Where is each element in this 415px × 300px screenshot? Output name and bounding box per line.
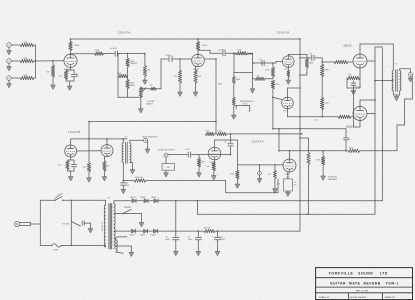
tube V4A 12AX7B triode 1 bbox=[65, 145, 77, 157]
resistor 1M V1B grid bbox=[179, 59, 181, 70]
wire input join vertical bbox=[35, 45, 37, 78]
ground V1B cathode bbox=[193, 92, 198, 96]
title block divider1 bbox=[316, 277, 413, 279]
resistor 1M divider link bbox=[252, 73, 254, 79]
wire phase to V5 rail bbox=[278, 129, 280, 151]
svg-text:BASS: BASS bbox=[130, 84, 136, 87]
node mix bbox=[233, 52, 235, 54]
wire D5 D6 bbox=[148, 230, 154, 232]
box V5 cathode bbox=[284, 179, 293, 191]
resistor 470K divider upper bbox=[272, 63, 274, 67]
capacitor filter C1 40/450V bbox=[175, 201, 177, 237]
svg-text:#3,8: #3,8 bbox=[284, 69, 288, 71]
wire HT top bbox=[113, 201, 115, 204]
potentiometer 500K bass bbox=[127, 71, 129, 80]
wire 6BQ5a plate bbox=[359, 44, 361, 54]
wire coupling a bbox=[300, 57, 311, 59]
resistor 500K reverb depth bbox=[233, 73, 235, 77]
wire V2A out bbox=[231, 139, 238, 141]
svg-text:12AX7B: 12AX7B bbox=[68, 130, 80, 134]
svg-text:820: 820 bbox=[106, 166, 109, 168]
wire divider to V3B grid bbox=[273, 97, 282, 99]
tube V3B triode bbox=[282, 97, 294, 109]
wire V4B grid stub bbox=[106, 139, 108, 145]
svg-text:.0047: .0047 bbox=[185, 149, 190, 151]
switch power S1 bbox=[40, 199, 55, 201]
tube V7 6BQ5 lower bbox=[353, 107, 367, 121]
wire cap to V2A grid bbox=[191, 154, 208, 156]
resistor driver mid bbox=[87, 163, 90, 173]
svg-text:130: 130 bbox=[348, 75, 351, 77]
transformer T2 secondary coil bbox=[400, 71, 401, 91]
transformer T1 secondary coil bbox=[130, 143, 131, 163]
wire V1A plate out bbox=[71, 53, 95, 55]
title block divider2 bbox=[316, 286, 413, 288]
svg-text:68K: 68K bbox=[24, 58, 28, 60]
ground T1 secondary bbox=[130, 170, 135, 174]
wire B+ vertical rail 2 bbox=[382, 48, 384, 201]
tube V1A 12AX7 triode 1 bbox=[64, 54, 77, 67]
node B+ rail to V1 plate bbox=[70, 38, 72, 40]
svg-text:DRAWN BY: DRAWN BY bbox=[385, 296, 396, 299]
wire cap to 220K bbox=[226, 52, 236, 54]
transformer T1 core bbox=[125, 142, 127, 163]
resistor grid stopper a bbox=[334, 60, 348, 63]
title block outer box bbox=[316, 268, 413, 300]
wire reverb mix run bbox=[146, 180, 226, 182]
svg-text:500K: 500K bbox=[236, 79, 241, 81]
switch ground polarity bbox=[71, 222, 80, 227]
diode D4 1N4003 bbox=[132, 229, 136, 233]
title block cell divider a bbox=[348, 293, 350, 300]
resistor 100K V1B plate bbox=[197, 39, 199, 42]
wire input to V1A grid bbox=[34, 60, 64, 62]
svg-text:GROUND: GROUND bbox=[63, 223, 71, 225]
svg-text:470K: 470K bbox=[275, 84, 280, 86]
resistor 250K treble feed bbox=[95, 52, 104, 55]
wire volume to V1B grid bbox=[156, 88, 161, 90]
wire V1A cathode join bbox=[66, 80, 74, 82]
ground V4B cathode bbox=[102, 177, 107, 181]
transformer T3 heater coil bbox=[116, 240, 117, 252]
svg-text:1N4003: 1N4003 bbox=[151, 235, 156, 237]
ground filter C1 bbox=[173, 251, 178, 255]
svg-text:+ 100: + 100 bbox=[313, 120, 318, 122]
resistor cathode 6BQ5 bbox=[347, 76, 360, 79]
wire D1 D2 bbox=[136, 200, 144, 202]
tube V4B 12AX7B triode 2 bbox=[101, 145, 113, 157]
transformer T2 primary coil bbox=[392, 71, 393, 91]
ground V3A cathode bbox=[286, 80, 291, 84]
svg-text:1M: 1M bbox=[147, 69, 150, 71]
wire mains to switch bbox=[31, 223, 41, 225]
svg-text:1N4003: 1N4003 bbox=[151, 197, 156, 199]
svg-text:FEEDBACK: FEEDBACK bbox=[328, 178, 338, 181]
wire V3B plate bbox=[287, 88, 289, 97]
title block divider3 bbox=[316, 292, 413, 294]
svg-text:#4,9: #4,9 bbox=[283, 110, 287, 112]
tube V1B 12AX7 triode 2 bbox=[192, 54, 205, 67]
wire 6BQ5a grid tap bbox=[322, 61, 334, 63]
wire jack1 to resistor bbox=[11, 44, 20, 46]
svg-text:100K: 100K bbox=[309, 63, 314, 65]
ground V1B grid bbox=[178, 92, 183, 96]
resistor 250K tone mid bbox=[118, 74, 128, 77]
wire V1B plate out bbox=[198, 49, 210, 51]
ground standby bbox=[141, 214, 143, 223]
wire T1 secondary top bbox=[129, 140, 131, 143]
diode D2 1N4003 bbox=[144, 199, 148, 203]
jack delay line input bbox=[144, 138, 148, 142]
capacitor 25/25V V1A cathode bbox=[73, 70, 75, 74]
svg-text:1N4003: 1N4003 bbox=[130, 235, 135, 237]
svg-text:2M2: 2M2 bbox=[218, 84, 222, 86]
capacitor .02 600V reverb send bbox=[222, 51, 224, 56]
ground footswitch aux bbox=[259, 175, 261, 178]
svg-text:25 25V: 25 25V bbox=[356, 86, 362, 88]
capacitor V4A cathode bbox=[73, 160, 75, 164]
plug AC mains bbox=[14, 221, 19, 226]
svg-text:2K2: 2K2 bbox=[58, 165, 61, 167]
potentiometer 500K treble bbox=[127, 54, 129, 58]
svg-text:1 AMP: 1 AMP bbox=[53, 249, 59, 252]
ground V4A cathode bbox=[68, 170, 75, 172]
wire cap to V1B bbox=[172, 58, 192, 60]
wire HT rail mid bbox=[158, 230, 205, 232]
resistor 100K V1A plate bbox=[70, 39, 72, 42]
ground V2A cathode bbox=[211, 176, 216, 180]
capacitor .02 mix out bbox=[261, 60, 263, 65]
svg-text:10M: 10M bbox=[201, 162, 205, 164]
tube V3A triode bbox=[283, 56, 295, 68]
resistor 30K 1W bbox=[204, 229, 215, 232]
wire V3A plate to rail bbox=[287, 55, 289, 56]
svg-text:250K: 250K bbox=[95, 50, 100, 52]
potentiometer volume ch1 bbox=[139, 87, 142, 97]
capacitor .02 600V ch1 bbox=[114, 51, 116, 56]
resistor 1M tone bbox=[144, 54, 146, 66]
svg-text:68K: 68K bbox=[24, 75, 28, 77]
capacitor .02 coupling a bbox=[311, 55, 313, 60]
switch standby bbox=[114, 213, 123, 215]
ground driver mid bbox=[87, 178, 92, 182]
svg-text:STANDBY: STANDBY bbox=[124, 206, 133, 209]
svg-text:7.5: 7.5 bbox=[57, 194, 59, 196]
wire delay out jack bbox=[168, 154, 187, 156]
wire HT mid bbox=[114, 230, 131, 232]
capacitor filter C2 bbox=[197, 231, 199, 237]
tube V2A recovery triode bbox=[208, 147, 221, 160]
svg-text:TREBLE: TREBLE bbox=[130, 63, 138, 65]
jack footswitch aux bbox=[259, 165, 261, 172]
resistor 1K5 V1A cathode bbox=[70, 67, 72, 70]
wire D4 D5 bbox=[136, 230, 144, 232]
wire 6BQ5b plate bbox=[359, 100, 361, 107]
resistor 100K V3A plate load bbox=[305, 58, 308, 68]
wire driver grid rail bbox=[71, 138, 128, 140]
node volume top bbox=[140, 97, 142, 99]
svg-text:12AX7A: 12AX7A bbox=[252, 140, 264, 144]
capacitor .02 recovery bbox=[228, 143, 233, 145]
wire B+ top rail bbox=[71, 38, 301, 40]
wire to coupling cap bbox=[104, 53, 116, 55]
svg-text:470: 470 bbox=[206, 130, 209, 132]
ground divider bbox=[252, 79, 254, 89]
wire T2 B+ tap bbox=[375, 80, 393, 82]
svg-text:.02 600V: .02 600V bbox=[218, 49, 226, 51]
svg-text:470K: 470K bbox=[265, 70, 270, 72]
svg-text:1K5: 1K5 bbox=[207, 166, 210, 168]
wire corner coupling b bbox=[345, 129, 347, 137]
svg-text:100K: 100K bbox=[349, 147, 354, 149]
wire T1 primary bottom bbox=[122, 163, 124, 183]
mark pencil check bbox=[55, 194, 62, 199]
transformer T3 primary coil bbox=[104, 205, 105, 247]
svg-text:6BQ5: 6BQ5 bbox=[344, 44, 352, 48]
wire mix out bbox=[253, 62, 276, 64]
ground 470K tail bbox=[321, 176, 326, 180]
svg-text:DELAY LINE OUTPUT: DELAY LINE OUTPUT bbox=[158, 149, 177, 152]
svg-text:250K: 250K bbox=[117, 73, 122, 75]
wire cap to divider a bbox=[315, 57, 322, 59]
svg-text:.02 600V: .02 600V bbox=[110, 48, 118, 50]
ground T2 bbox=[394, 97, 399, 101]
node rail junctions bbox=[299, 38, 301, 40]
svg-text:DRAWN BY: DRAWN BY bbox=[319, 296, 330, 299]
input jack J1 bbox=[7, 43, 12, 48]
node tone stack top bbox=[117, 53, 119, 55]
diode D5 1N4003 bbox=[144, 229, 148, 233]
node V1B grid wire bbox=[179, 58, 181, 60]
wire V5 plate rail bbox=[279, 150, 345, 152]
svg-text:470: 470 bbox=[150, 85, 153, 87]
transformer T1 primary coil bbox=[122, 143, 123, 163]
wire 6BQ5b cathode bbox=[359, 121, 361, 128]
svg-text:DESIGN CHECKED: DESIGN CHECKED bbox=[350, 297, 367, 299]
wire T1 primary top bbox=[122, 139, 124, 143]
svg-text:+ .02: + .02 bbox=[308, 54, 312, 56]
resistor screen dropper bbox=[300, 137, 309, 139]
ground V1A cathode bbox=[67, 86, 72, 90]
svg-text:100K: 100K bbox=[202, 45, 208, 47]
wire 6BQ5b grid feed bbox=[288, 116, 339, 118]
ground 1M tone bbox=[143, 80, 148, 84]
wire V5 grid line bbox=[237, 164, 283, 166]
svg-text:FEB 14 1969: FEB 14 1969 bbox=[356, 290, 369, 292]
wire tone stack left vertical bbox=[117, 54, 119, 98]
ground jack J3 bbox=[8, 80, 10, 83]
resistor V3A cathode bbox=[287, 67, 289, 70]
svg-text:1N4003: 1N4003 bbox=[140, 235, 145, 237]
jack delay line output bbox=[164, 153, 168, 157]
svg-text:GUITAR MATE REVERB YGM-1: GUITAR MATE REVERB YGM-1 bbox=[330, 281, 399, 285]
wire speaker feedback run bbox=[411, 75, 413, 100]
resistor 470K volume out bbox=[140, 87, 142, 89]
ground 10M recovery bbox=[197, 173, 202, 177]
wire primary inner bbox=[70, 200, 72, 221]
wire phase rail bbox=[273, 128, 346, 130]
wire divider down bbox=[272, 97, 274, 129]
wire T2 bottom bar bbox=[392, 91, 394, 95]
ground V5 cathode bbox=[286, 192, 291, 196]
wire heater rail bbox=[196, 201, 198, 214]
box reverb level bbox=[162, 164, 175, 171]
wire D2 D3 bbox=[148, 200, 154, 202]
svg-text:DELAY LINE INPUT: DELAY LINE INPUT bbox=[142, 135, 159, 138]
wire heater top bbox=[116, 237, 118, 240]
wire V4A grid stub bbox=[70, 139, 72, 145]
wire HT rail upper bbox=[158, 200, 383, 202]
wire driver plates join bbox=[77, 150, 101, 152]
wire reverb driver rail bbox=[89, 121, 216, 123]
speaker jack bbox=[408, 73, 412, 77]
node rail2 top bbox=[375, 46, 383, 48]
wire cap to tone stack bbox=[117, 53, 145, 55]
wire mix to V3A grid bbox=[275, 62, 277, 63]
svg-text:.02: .02 bbox=[224, 141, 227, 143]
ground speaker jack bbox=[409, 77, 411, 79]
resistor 500K level bbox=[236, 165, 238, 170]
wire reverb box ground stub bbox=[233, 106, 235, 115]
svg-text:1M: 1M bbox=[257, 75, 260, 77]
wire jack3 to resistor bbox=[11, 77, 20, 79]
resistor 1M V5 grid bbox=[274, 165, 276, 171]
node grid leak bbox=[52, 60, 54, 62]
resistor 68K input 2 bbox=[20, 59, 34, 62]
svg-text:12AX7A: 12AX7A bbox=[277, 31, 291, 35]
wire primary bottom bbox=[105, 245, 107, 247]
resistor 470K reverb mix bbox=[123, 180, 134, 182]
svg-text:1M: 1M bbox=[47, 72, 50, 74]
ground filter C3 bbox=[215, 251, 220, 255]
svg-text:30K 1W: 30K 1W bbox=[204, 228, 211, 230]
svg-text:1N4003: 1N4003 bbox=[141, 197, 146, 199]
resistor V4B cathode bbox=[103, 156, 105, 161]
resistor 10M recovery grid bbox=[198, 155, 200, 158]
wire T2 secondary to jack bbox=[399, 69, 401, 71]
input jack J2 bbox=[7, 59, 12, 64]
ground filter C2 bbox=[196, 251, 201, 255]
input jack J3 bbox=[7, 76, 12, 81]
resistor grid stopper b bbox=[338, 115, 351, 118]
wire primary top bbox=[105, 200, 107, 205]
wire V2A plate bbox=[214, 140, 216, 147]
transformer T3 secondary coil bbox=[114, 204, 115, 249]
wire cap to grid node bbox=[230, 147, 232, 155]
tube V5 mixer triode bbox=[283, 159, 296, 172]
capacitor filter C3 bbox=[217, 231, 219, 237]
fuse 1 AMP bbox=[40, 244, 52, 246]
resistor 470K tail bbox=[322, 151, 324, 156]
resistor 1M grid leak bbox=[52, 61, 54, 65]
ground delay input jack bbox=[147, 140, 149, 149]
capacitor .0047 recovery bbox=[187, 152, 189, 157]
svg-text:470K: 470K bbox=[316, 160, 321, 162]
svg-text:MATE 1: MATE 1 bbox=[147, 103, 153, 106]
ground heater bbox=[129, 252, 134, 256]
diode D6 1N4003 bbox=[154, 229, 158, 233]
capacitor .02 600 ch1b bbox=[168, 56, 170, 61]
tube V6 6BQ5 upper bbox=[353, 54, 367, 68]
resistor 220K divider a1 bbox=[321, 58, 323, 64]
ground reverb box bbox=[231, 115, 236, 119]
svg-text:.02 600: .02 600 bbox=[165, 55, 171, 57]
wire V5 plate bbox=[289, 151, 291, 159]
svg-text:+.02: +.02 bbox=[258, 59, 261, 61]
svg-text:117 VAC 60: 117 VAC 60 bbox=[101, 222, 104, 231]
resistor 220K mix bbox=[236, 52, 248, 55]
ground T1 bottom bbox=[121, 189, 126, 193]
svg-text:YORKVILLE SOUND LTD: YORKVILLE SOUND LTD bbox=[328, 272, 387, 276]
resistor feedback 100K bbox=[348, 149, 360, 152]
wire V3B cathode bbox=[287, 109, 289, 117]
resistor reverb depth lower bbox=[232, 97, 235, 106]
resistor V2A cathode bbox=[214, 160, 216, 162]
box mix network bbox=[234, 54, 253, 73]
resistor 270K V2A plate bbox=[206, 132, 215, 135]
capacitor 25 25V T1 bbox=[121, 182, 126, 184]
wire heater bottom bbox=[116, 245, 132, 247]
box reverb tank bbox=[236, 105, 250, 112]
svg-text:220K: 220K bbox=[325, 70, 330, 72]
node input junction bbox=[35, 60, 37, 62]
ground jack J2 bbox=[8, 63, 10, 66]
svg-text:1M: 1M bbox=[174, 76, 177, 78]
wire 6BQ5a cathode bbox=[359, 68, 361, 74]
title block cell divider b bbox=[382, 293, 384, 300]
diode D1 1N4003 bbox=[132, 199, 136, 203]
transformer T3 core bbox=[108, 204, 110, 250]
svg-text:68K: 68K bbox=[24, 42, 28, 44]
svg-text:470K 1M: 470K 1M bbox=[135, 177, 143, 179]
ground 1M grid leak bbox=[51, 85, 56, 89]
wire B+ vertical rail 1 bbox=[374, 47, 376, 214]
ground 500K level bbox=[235, 184, 240, 188]
wire B+ right rail bbox=[299, 39, 301, 231]
wire driver feed bbox=[88, 122, 90, 163]
resistor V4A cathode bbox=[70, 157, 72, 160]
wire jack2 to resistor bbox=[11, 60, 20, 62]
capacitor death cap bbox=[81, 221, 83, 225]
svg-text:270K: 270K bbox=[237, 50, 242, 52]
resistor 68K input 1 bbox=[20, 43, 34, 46]
wire ch1 signal down bbox=[215, 59, 217, 133]
ground reverb level bbox=[164, 173, 169, 177]
transformer T2 core bbox=[395, 70, 397, 92]
ground jack J1 bbox=[8, 47, 10, 50]
resistor 68K input 3 bbox=[20, 76, 34, 79]
wire T1 secondary bottom bbox=[130, 162, 133, 164]
svg-text:220K: 220K bbox=[325, 103, 330, 105]
resistor 470K divider lower bbox=[271, 80, 274, 89]
ground 6BQ5 cathode bbox=[353, 88, 355, 91]
svg-text:1N4003: 1N4003 bbox=[130, 197, 135, 199]
ground 1M V5 grid bbox=[273, 189, 278, 193]
diode D3 1N4003 bbox=[154, 199, 158, 203]
node T1 tap bbox=[123, 180, 125, 182]
wire HT rail mid2 bbox=[215, 230, 300, 232]
capacitor 25 25V 6BQ5 bbox=[359, 78, 361, 88]
svg-text:12AX7A: 12AX7A bbox=[118, 31, 132, 35]
svg-text:100K: 100K bbox=[74, 45, 80, 47]
ground volume pot bbox=[138, 109, 143, 113]
ground death cap bbox=[88, 229, 93, 233]
wire plate coupling bbox=[227, 133, 302, 135]
resistor 220K divider a2 bbox=[321, 98, 324, 110]
resistor 2K2 V1B cathode bbox=[195, 67, 197, 70]
